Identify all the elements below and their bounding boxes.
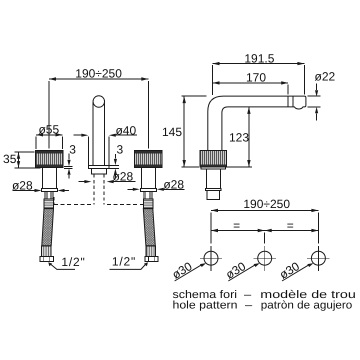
- side threaded tail: [207, 190, 220, 199]
- spout top ball: [93, 96, 105, 108]
- right handle threaded tail: [144, 192, 152, 200]
- svg-text:3: 3: [116, 142, 123, 156]
- svg-text:ø22: ø22: [315, 70, 336, 84]
- side stem plate: [205, 188, 221, 190]
- hole circle centre ø30: [258, 251, 272, 265]
- dimension 35 vertical line: [18, 152, 20, 167]
- dimension ø22: upper line: [316, 84, 318, 91]
- left hose crimp: [42, 246, 51, 257]
- spout column left side: [92, 102, 94, 166]
- dimension 145 line: [183, 96, 185, 167]
- ø28 right underline: [162, 188, 184, 190]
- extension line ø55 right: [62, 136, 64, 148]
- dimension ø28 left underline: [13, 190, 35, 192]
- svg-text:patròn de agujero: patròn de agujero: [261, 299, 353, 311]
- extension line 170 right: [287, 85, 289, 95]
- left hose braid: [42, 209, 54, 246]
- deck hidden corner vertical: [53, 197, 55, 205]
- svg-text:1/2": 1/2": [112, 254, 136, 268]
- extension tick 3 left bottom: [64, 167, 73, 169]
- svg-text:123: 123: [229, 131, 249, 145]
- ø40 underline: [115, 134, 138, 136]
- arrow ø22 pointing up: [315, 107, 318, 113]
- left hose hex nut 1/2 inch: [40, 257, 54, 262]
- extension tick 3 right bottom: [107, 168, 119, 170]
- extension tick 3 right top: [109, 164, 119, 166]
- arrow ø28 centre pointing right: [84, 180, 91, 183]
- side spout aerator ring line 1: [287, 96, 289, 107]
- arrow ø40 pointing left: [109, 134, 116, 137]
- dimension ø40 extension right: [108, 137, 110, 165]
- svg-text:35: 35: [3, 152, 17, 166]
- side spout aerator ring line 2: [292, 96, 294, 107]
- spout hidden shank dashed left: [93, 174, 95, 205]
- svg-text:ø28: ø28: [163, 177, 184, 191]
- arrow ø28 right pointing left: [157, 188, 164, 191]
- svg-text:190÷250: 190÷250: [75, 66, 122, 80]
- svg-text:=: =: [287, 218, 294, 232]
- svg-text:1/2": 1/2": [61, 255, 85, 269]
- arrow ø28 left pointing right: [35, 189, 42, 192]
- hole pattern dimension 190÷250 line: [211, 209, 318, 211]
- extension tick ø22 bottom: [308, 106, 321, 108]
- leader 1/2 inch right: [110, 264, 147, 270]
- extension line 35 bottom: [15, 167, 41, 169]
- ø40 left tail: [73, 134, 82, 136]
- dimension 3 left: lower segment: [68, 175, 70, 178]
- right hose ferrule: [143, 199, 153, 208]
- extension line 123 bottom: [227, 166, 252, 168]
- hole pattern extension line centre: [264, 232, 266, 243]
- arrow left of ø55: [36, 133, 43, 136]
- side stem ø28: [206, 169, 220, 189]
- svg-text:145: 145: [162, 125, 182, 139]
- side knurled base nut: [200, 151, 226, 167]
- svg-text:hole pattern: hole pattern: [173, 299, 238, 311]
- hole circle right ø30: [311, 251, 325, 265]
- extension line ø55 left: [35, 136, 37, 148]
- svg-text:ø40: ø40: [115, 123, 136, 137]
- right hose hex nut 1/2 inch: [145, 257, 158, 262]
- dimension 123 line: [248, 107, 250, 167]
- dimension ø28 centre: left tail: [79, 181, 85, 183]
- extension line left handle centre: [48, 81, 50, 149]
- svg-text:170: 170: [246, 71, 266, 85]
- arrow ø28 centre pointing left: [107, 180, 114, 183]
- dimension 3 right: upper segment: [114, 154, 116, 159]
- deck hidden line left segment: [54, 204, 91, 206]
- arrow 3 right pointing down: [114, 159, 117, 165]
- svg-text:–: –: [245, 299, 253, 311]
- right handle knurled body: [135, 151, 163, 168]
- arrow 3 left pointing up: [67, 168, 70, 174]
- leader ø30 right: [282, 265, 308, 281]
- extension line 35 top: [15, 151, 35, 153]
- dimension ø22: lower line: [316, 114, 318, 121]
- dimension ø28 right: left tail: [127, 188, 133, 190]
- arrow 3 right pointing up: [114, 169, 117, 175]
- svg-text:=: =: [233, 218, 240, 232]
- dimension 190÷250 top line: [49, 78, 148, 80]
- hole pattern extension line left: [210, 212, 212, 243]
- arrow ø28 right pointing right: [133, 188, 140, 191]
- arrow ø28 left second pointing left: [58, 189, 65, 192]
- ø28 centre underline: [112, 181, 135, 183]
- arrow left of 190÷250: [49, 77, 56, 80]
- arrow right of ø55: [56, 133, 63, 136]
- dimension 3 right: lower segment: [114, 175, 116, 179]
- arrow down of 35: [17, 161, 20, 168]
- dimension 170 line: [213, 82, 289, 84]
- extension line 145 bottom: [181, 166, 199, 168]
- svg-text:ø55: ø55: [38, 122, 59, 136]
- left handle threaded tail: [45, 192, 53, 200]
- hole left centrelines: [200, 246, 222, 271]
- spout hidden shank dashed right: [103, 174, 105, 205]
- svg-text:3: 3: [69, 142, 76, 156]
- arrow ø40 pointing right: [81, 134, 88, 137]
- hole circle left ø30: [204, 251, 218, 265]
- extension line right handle centre: [147, 81, 149, 149]
- arrow ø22 pointing down: [315, 90, 318, 96]
- left handle knurled body: [36, 151, 64, 168]
- extension line 170/191.5 left: [212, 65, 214, 95]
- right hose crimp: [146, 246, 155, 257]
- leader 1/2 inch left: [50, 264, 75, 270]
- right handle stem ø28: [141, 167, 155, 188]
- svg-text:ø28: ø28: [12, 178, 33, 192]
- svg-text:191.5: 191.5: [244, 52, 274, 66]
- arrow up of 35: [17, 152, 20, 159]
- left hose ferrule: [44, 199, 54, 208]
- spout collar ø28: [92, 168, 107, 174]
- side view spout body L pipe: [208, 96, 306, 151]
- left handle stem ø28: [43, 167, 57, 188]
- arrow 3 left pointing down: [67, 160, 70, 166]
- deck hidden line right segment: [107, 204, 143, 206]
- svg-text:ø28: ø28: [112, 170, 133, 184]
- leader ø30 centre: [228, 265, 254, 281]
- leader ø30 left: [175, 265, 201, 281]
- side base nut skirt: [201, 167, 225, 169]
- right handle base plate: [140, 189, 156, 192]
- hole right centrelines: [307, 246, 329, 271]
- dimension ø55 line: [36, 134, 63, 136]
- hole pattern equal-split dimension line: [211, 230, 318, 232]
- arrow right of 190÷250: [141, 77, 148, 80]
- hole pattern extension line right: [317, 212, 319, 243]
- spout base flange ø40: [88, 166, 109, 169]
- extension tick 3 left top: [64, 165, 73, 167]
- dimension 191.5 line: [213, 63, 305, 65]
- right hose braid: [143, 209, 155, 246]
- dimension 3 left: upper segment: [68, 154, 70, 160]
- left handle base plate: [42, 189, 58, 192]
- extension line 145 top: [181, 95, 206, 97]
- extension line 191.5 right: [303, 65, 305, 94]
- spout column right side: [104, 102, 106, 166]
- hole centre centrelines: [254, 246, 276, 271]
- extension tick ø22 top: [308, 95, 321, 97]
- svg-text:190÷250: 190÷250: [243, 197, 290, 211]
- dimension ø40 extension left: [87, 137, 89, 165]
